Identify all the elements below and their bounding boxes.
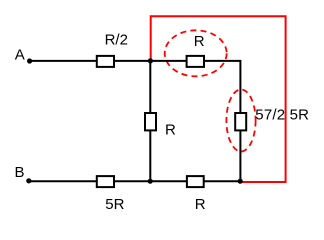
svg-text:R: R [165,121,176,138]
junction dot (bottom middle) [148,179,153,184]
wire B to 5R [29,180,96,182]
wire junction down to middle R [149,61,151,113]
svg-text:R: R [194,33,205,50]
resistor R (top) [187,56,204,67]
svg-text:57/2: 57/2 [255,106,285,123]
wire bottom node to bottom R [150,180,187,182]
node A terminal dot [27,58,32,63]
wire 57/25R to bottom-right node [239,130,241,181]
wire bottom R to bottom-right node [204,180,240,182]
svg-text:R: R [195,196,206,213]
resistor R (middle, vertical) [145,113,156,130]
junction dot (bottom right) [238,179,243,184]
highlight ellipse around resistor 57/25R [226,90,255,152]
junction dot (top middle) [148,58,153,63]
resistor 5R [97,176,114,187]
resistor 57/25R (vertical) [235,113,246,130]
red loop wire (short from top junction node up over to bottom-right node) [151,16,286,182]
resistor R/2 [97,56,114,67]
node B terminal dot [26,178,31,183]
svg-text:5R: 5R [105,196,124,213]
svg-text:5R: 5R [290,106,310,123]
wire top R to right corner and down to 57/25R [204,61,240,113]
wire junction to top R [150,60,186,62]
wire middle R to bottom node [149,130,151,181]
wire 5R to bottom node [115,180,150,182]
wire A to R/2 [30,60,96,62]
highlight ellipse around top resistor R [165,30,227,76]
svg-text:B: B [15,164,25,181]
svg-text:R/2: R/2 [105,31,128,48]
wire R/2 to junction [115,60,151,62]
svg-text:A: A [15,47,25,64]
resistor R (bottom) [187,176,204,187]
